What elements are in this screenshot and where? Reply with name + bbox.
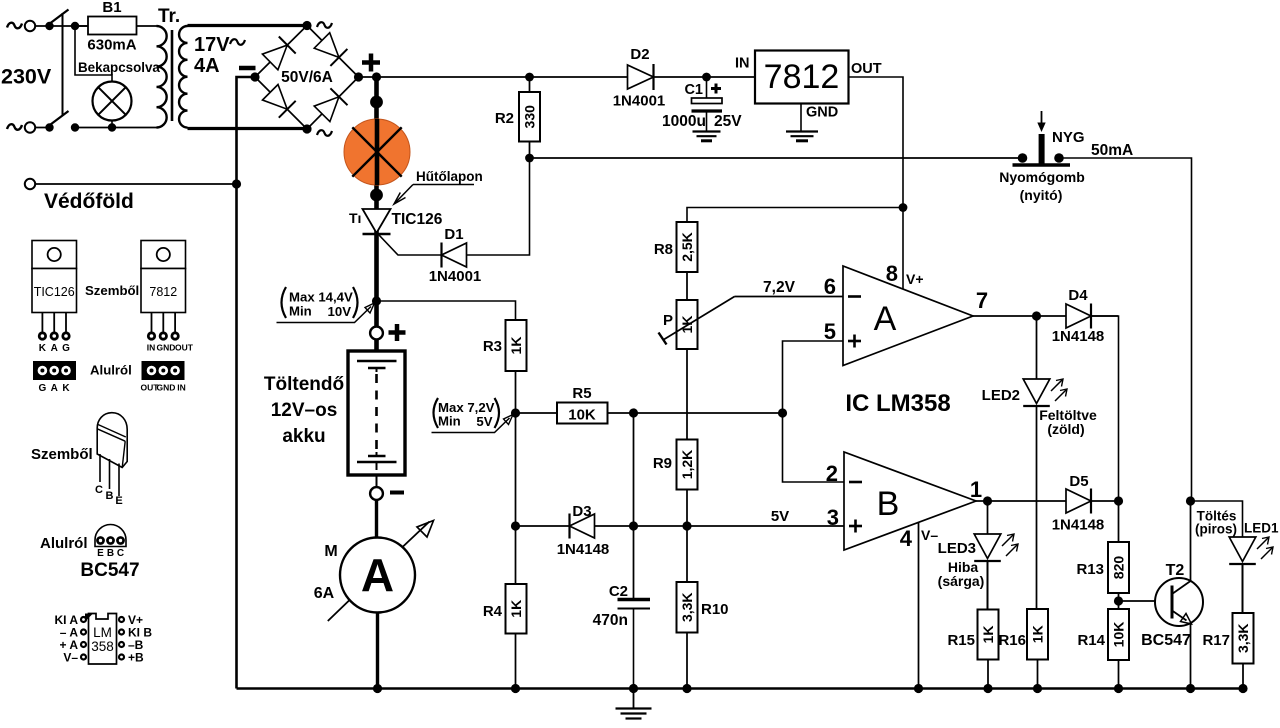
svg-text:230V: 230V	[1, 65, 52, 89]
diode D5 1N4148	[1066, 489, 1091, 513]
fuse B1	[88, 17, 137, 35]
wire ammeter to bus	[376, 613, 379, 689]
resistor R9 1,2K	[677, 440, 698, 490]
switch mechanical link	[62, 13, 64, 116]
7812 bottom view	[142, 361, 185, 380]
svg-text:8: 8	[886, 261, 898, 286]
svg-text:1: 1	[970, 477, 982, 502]
pushbutton NYG plunger	[1039, 134, 1045, 164]
junction D4-D5-R13	[1114, 496, 1123, 505]
svg-text:7812: 7812	[149, 285, 177, 299]
wire T2 emitter to bus	[1190, 623, 1192, 689]
svg-text:TIC126: TIC126	[34, 285, 75, 299]
svg-text:1K: 1K	[508, 600, 524, 618]
wire measure row to opamp inputs	[634, 412, 783, 414]
svg-text:5V: 5V	[771, 508, 789, 525]
label minus (battery)	[390, 491, 404, 495]
wire to pin5	[783, 341, 844, 413]
svg-text:OUT: OUT	[175, 343, 194, 353]
TIC126 bottom view	[33, 361, 76, 380]
label plus (bridge)	[362, 60, 380, 65]
wire R2 top	[529, 77, 531, 92]
svg-text:IC LM358: IC LM358	[845, 390, 950, 417]
capacitor C1 1000u 25V	[706, 77, 708, 98]
svg-text:10K: 10K	[568, 407, 596, 424]
diode D3 1N4148	[570, 514, 595, 538]
svg-text:10V: 10V	[328, 304, 352, 319]
svg-text:1N4148: 1N4148	[1052, 517, 1105, 534]
svg-text:5V: 5V	[476, 414, 492, 429]
wire bridge plus to D2 row	[359, 76, 629, 78]
diode D1 1N4001	[442, 243, 467, 267]
ground bus wire (bottom)	[237, 687, 1244, 690]
resistor R13 820	[1108, 542, 1129, 593]
junction lamp-bottom	[108, 123, 116, 131]
svg-text:IN: IN	[147, 343, 156, 353]
svg-text:akku: akku	[282, 426, 325, 447]
svg-text:10K: 10K	[1111, 622, 1127, 648]
junction R14-bus	[1114, 684, 1123, 693]
switch S1b blade	[49, 111, 69, 126]
junction blob above heatsink disc	[370, 96, 383, 109]
svg-text:D3: D3	[572, 503, 591, 520]
resistor R14 10K	[1108, 609, 1129, 660]
svg-text:D1: D1	[444, 226, 463, 243]
svg-text:2: 2	[826, 461, 838, 486]
svg-text:Alulról: Alulról	[40, 535, 88, 552]
junction C2-D3	[629, 521, 638, 530]
wire D3 to C2 column	[595, 525, 634, 527]
svg-text:BC547: BC547	[80, 560, 139, 581]
svg-text:Max 14,4V: Max 14,4V	[289, 290, 353, 305]
resistor R3 1K	[506, 320, 527, 371]
svg-text:Hűtőlapon: Hűtőlapon	[416, 169, 483, 184]
svg-text:E: E	[97, 548, 104, 559]
svg-text:1N4001: 1N4001	[429, 268, 482, 285]
junction blob below heatsink disc	[370, 189, 383, 202]
switch S1b contact dots	[45, 123, 53, 131]
ground (main bus)	[633, 689, 635, 709]
ammeter arrow	[328, 600, 349, 621]
wire mains top line to fuse	[36, 25, 89, 27]
svg-text:A: A	[51, 383, 58, 394]
resistor R17 3,3K	[1233, 613, 1254, 664]
svg-text:50mA: 50mA	[1091, 142, 1133, 159]
svg-text:A: A	[874, 300, 897, 338]
resistor R4 1K	[506, 584, 527, 634]
junction bridge plus	[354, 72, 363, 81]
junction R2 bottom / D1 node	[525, 154, 534, 163]
svg-text:3,3K: 3,3K	[1235, 623, 1251, 653]
diode D4 1N4148	[1066, 304, 1091, 328]
svg-text:R13: R13	[1076, 561, 1104, 578]
svg-text:12V–os: 12V–os	[271, 400, 338, 421]
svg-text:B: B	[106, 490, 114, 502]
TIC126 package front view	[32, 241, 77, 269]
label plus (battery)	[389, 330, 406, 335]
wire to R4	[515, 526, 517, 584]
wire half-node to R5	[516, 412, 558, 414]
wire LED1 branch	[1191, 501, 1243, 537]
svg-text:330: 330	[522, 105, 538, 129]
svg-text:C1: C1	[684, 82, 703, 98]
wire R3 to measure node	[515, 371, 517, 413]
wire switch to lamp branch and fuse	[75, 25, 88, 27]
junction R13-R14-base	[1114, 596, 1123, 605]
resistor R5 10K	[557, 403, 608, 424]
wire node to R3	[377, 301, 516, 320]
pushbutton NYG bridge bar	[1013, 163, 1071, 167]
earth terminal Vedofold	[25, 179, 35, 189]
svg-text:Bekapcsolva: Bekapcsolva	[78, 60, 160, 75]
wire LED2 to R16	[1036, 406, 1038, 609]
svg-text:Tr.: Tr.	[158, 6, 180, 27]
svg-text:Min: Min	[438, 414, 461, 429]
wire LED3 anode	[987, 501, 989, 534]
svg-text:R8: R8	[654, 241, 673, 258]
svg-text:Min: Min	[289, 304, 312, 319]
svg-text:50V/6A: 50V/6A	[281, 69, 333, 86]
svg-text:BC547: BC547	[1141, 632, 1191, 649]
svg-text:C2: C2	[609, 583, 628, 600]
wire D1 to R2 bottom	[467, 158, 530, 255]
junction half-voltage node	[511, 408, 520, 417]
wire 7812 OUT to V+ rail	[849, 77, 904, 289]
wire T2 base	[1119, 600, 1173, 602]
svg-text:358: 358	[91, 639, 114, 654]
wire 7,2V reference to pin6	[735, 296, 844, 298]
svg-text:V–: V–	[921, 527, 938, 543]
junction opamp input branch	[778, 408, 787, 417]
wire D2 to 7812 IN	[654, 76, 756, 78]
svg-text:7,2V: 7,2V	[763, 279, 796, 296]
svg-text:Töltendő: Töltendő	[264, 374, 344, 395]
wire 5V node to R10	[686, 526, 688, 582]
resistor R10 3,3K	[677, 582, 698, 633]
label minus (bridge)	[239, 66, 256, 71]
svg-text:R2: R2	[495, 110, 514, 127]
svg-text:4: 4	[900, 526, 913, 551]
svg-text:M: M	[324, 543, 337, 560]
junction R2 top	[525, 73, 534, 82]
wire half-node down	[515, 413, 517, 526]
wire LED3 to R15	[987, 561, 989, 610]
wire secondary bottom to bridge (thick)	[188, 127, 308, 130]
wire R13 to R14	[1118, 593, 1120, 609]
lamp (power-on indicator)	[93, 82, 132, 121]
wire R10 to bus	[686, 633, 688, 689]
junction C2-bus	[629, 684, 638, 693]
svg-text:(zöld): (zöld)	[1047, 421, 1084, 437]
wire 5V row	[634, 525, 845, 527]
plus sign pin3	[849, 525, 862, 528]
svg-text:C: C	[117, 548, 124, 559]
junction R10-bus	[682, 684, 691, 693]
wire P to R9	[686, 349, 688, 440]
AC symbol bridge top	[317, 22, 332, 28]
junction R16-bus	[1033, 684, 1042, 693]
IC LM358 DIP package	[89, 614, 117, 665]
junction output A / LED2	[1032, 311, 1041, 320]
op-amp U1B	[844, 452, 976, 550]
wire R2 bottom	[529, 142, 531, 159]
svg-text:R14: R14	[1077, 632, 1105, 649]
potentiometer P 1K	[677, 300, 698, 349]
svg-text:K: K	[62, 383, 70, 394]
svg-text:G: G	[39, 383, 47, 394]
ground (7812)	[786, 130, 818, 132]
svg-text:A: A	[361, 549, 394, 601]
svg-text:7812: 7812	[764, 58, 840, 96]
svg-text:V–: V–	[63, 651, 78, 665]
svg-text:D2: D2	[630, 46, 649, 63]
svg-text:R4: R4	[483, 603, 503, 620]
pushbutton NYG actuate arrow	[1041, 111, 1043, 127]
junction R15-bus	[983, 684, 992, 693]
LM358 pins	[80, 616, 87, 623]
svg-text:25V: 25V	[714, 113, 742, 130]
junction R4/D3 node	[511, 521, 520, 530]
wire switch bottom to transformer	[75, 127, 157, 129]
mains terminal L (top)	[25, 21, 35, 31]
junction bridge AC top	[302, 21, 311, 30]
svg-text:LM: LM	[93, 625, 112, 640]
bridge diode (bottom-right edge)	[314, 97, 339, 122]
wire to pin2	[783, 413, 845, 482]
svg-text:6: 6	[824, 274, 836, 299]
svg-text:(nyitó): (nyitó)	[1020, 187, 1063, 203]
ammeter M 6A	[340, 538, 415, 613]
wire pin4 to bus	[918, 522, 920, 689]
svg-text:B: B	[877, 485, 900, 523]
LED1 (red)	[1229, 537, 1256, 562]
svg-text:Nyomógomb: Nyomógomb	[999, 169, 1085, 185]
label plus (C1)	[711, 87, 721, 90]
svg-text:3: 3	[827, 505, 839, 530]
diode D2 1N4001	[628, 65, 654, 89]
wire battery to ammeter	[375, 500, 378, 538]
svg-text:B: B	[107, 548, 114, 559]
battery plates	[357, 360, 397, 362]
pushbutton NYG contacts	[1018, 153, 1028, 163]
regulator U2 7812 box	[755, 51, 849, 104]
junction earth-minus rail	[232, 179, 241, 188]
transformer Tr core	[171, 30, 174, 121]
svg-text:17V: 17V	[194, 34, 230, 56]
svg-text:470n: 470n	[593, 612, 628, 629]
wire R9 to 5V node	[686, 490, 688, 527]
wire lamp branch	[75, 26, 112, 82]
wire R4 to bus	[515, 634, 517, 689]
ground (C1)	[693, 130, 721, 132]
svg-text:6A: 6A	[314, 585, 335, 602]
transformer Tr secondary winding	[179, 26, 187, 128]
junction V+ / R8 feed	[899, 203, 908, 212]
capacitor C2 470n	[618, 598, 651, 601]
svg-text:GND: GND	[806, 105, 838, 121]
wire D3 row left	[516, 525, 570, 527]
svg-text:R15: R15	[947, 632, 975, 649]
thyristor T1 TIC126	[363, 209, 391, 233]
wire opamp A output	[973, 315, 1118, 317]
AC symbol bridge bottom	[317, 130, 332, 136]
wire D4 to D5 column	[1092, 316, 1119, 501]
svg-text:1K: 1K	[980, 626, 996, 644]
svg-text:1000u: 1000u	[662, 113, 706, 130]
svg-text:A: A	[51, 343, 58, 354]
plus sign pin5	[848, 340, 861, 343]
mains terminal L (bottom)	[25, 122, 35, 132]
AC symbol bottom-left	[7, 124, 22, 130]
bridge rectifier 50V/6A frame	[307, 26, 359, 78]
junction pin4-bus	[914, 684, 923, 693]
svg-text:LED2: LED2	[982, 387, 1020, 404]
svg-text:K: K	[39, 343, 47, 354]
svg-text:Védőföld: Védőföld	[44, 190, 134, 213]
svg-text:LED1: LED1	[1244, 521, 1279, 536]
svg-text:Alulról: Alulról	[90, 363, 132, 378]
svg-text:R17: R17	[1202, 632, 1230, 649]
bridge diode (left-top edge)	[262, 45, 287, 70]
svg-text:NYG: NYG	[1052, 129, 1085, 146]
junction R5-C2 node	[629, 408, 638, 417]
transistor T2 BC547	[1155, 578, 1203, 626]
svg-text:GND: GND	[157, 343, 176, 353]
battery cell box	[374, 340, 379, 352]
battery plus terminal	[370, 327, 383, 340]
wire R17 to bus	[1242, 664, 1244, 689]
svg-text:1,2K: 1,2K	[679, 450, 695, 480]
svg-text:5: 5	[824, 319, 836, 344]
battery minus terminal	[376, 475, 378, 487]
wire main charge rail (thick)	[374, 77, 379, 333]
wire R5 to C2 node	[608, 412, 634, 414]
wire fuse to transformer	[137, 25, 158, 27]
svg-text:R10: R10	[701, 601, 729, 618]
svg-text:E: E	[115, 495, 122, 507]
svg-text:1N4148: 1N4148	[557, 541, 610, 558]
wire secondary top to bridge (thick)	[188, 24, 308, 27]
svg-text:1N4001: 1N4001	[613, 93, 666, 110]
wire earth to minus rail	[36, 183, 237, 185]
junction bridge minus	[250, 72, 259, 81]
svg-text:B1: B1	[102, 0, 121, 16]
svg-text:R9: R9	[653, 455, 672, 472]
junction output B / LED3	[983, 496, 992, 505]
svg-text:820: 820	[1111, 556, 1127, 580]
svg-text:P: P	[663, 312, 673, 329]
svg-text:Szemből: Szemből	[85, 283, 139, 298]
svg-text:(piros): (piros)	[1195, 522, 1237, 537]
svg-text:G: G	[62, 343, 70, 354]
junction plus rail	[372, 72, 381, 81]
wire opamp B output	[976, 500, 1066, 502]
svg-text:Tı: Tı	[349, 210, 361, 226]
junction R9-R10 5V node	[682, 521, 691, 530]
svg-text:1N4148: 1N4148	[1052, 328, 1105, 345]
svg-text:T2: T2	[1166, 562, 1185, 579]
wire R13 top	[1118, 501, 1120, 542]
resistor R16 1K	[1027, 609, 1048, 660]
wire R8 feed	[687, 208, 903, 223]
junction emitter-bus	[1186, 684, 1195, 693]
svg-text:630mA: 630mA	[87, 37, 136, 54]
svg-text:1K: 1K	[508, 337, 524, 355]
wire R8 to P	[686, 272, 688, 300]
wire R15 to bus	[987, 660, 989, 689]
junction ammeter-bus	[373, 684, 382, 693]
svg-text:3,3K: 3,3K	[679, 592, 695, 622]
svg-text:1K: 1K	[1030, 625, 1046, 643]
LED3 (yellow)	[974, 534, 1001, 559]
wire T2 collector up	[1190, 501, 1192, 581]
svg-text:Szemből: Szemből	[31, 446, 93, 463]
svg-text:OUT: OUT	[851, 61, 882, 77]
minus sign pin2	[849, 481, 862, 484]
wire T1 gate	[379, 235, 441, 255]
resistor R8 2,5K	[677, 222, 698, 272]
junction R4-bus	[511, 684, 520, 693]
svg-text:R5: R5	[572, 385, 591, 402]
svg-text:LED3: LED3	[938, 540, 976, 557]
wire NYG row	[530, 157, 1023, 159]
svg-text:D5: D5	[1069, 473, 1088, 490]
svg-text:GND: GND	[157, 383, 176, 393]
junction C1 top	[702, 73, 711, 82]
switch S1a contact dots	[45, 22, 53, 30]
svg-text:+B: +B	[128, 651, 144, 665]
junction collector-LED1 branch	[1186, 496, 1195, 505]
wire LED2 anode	[1036, 316, 1038, 379]
svg-text:TIC126: TIC126	[392, 211, 443, 228]
resistor R2 330	[519, 92, 540, 142]
wire D5 to R13 column	[1092, 500, 1119, 502]
wire LED1 to R17	[1242, 564, 1244, 613]
svg-text:4A: 4A	[194, 55, 220, 77]
BC547 bottom view	[95, 524, 126, 546]
wire NYG to right rail	[1059, 158, 1192, 501]
svg-text:V+: V+	[906, 271, 924, 287]
wire 7812 GND pin	[800, 104, 802, 132]
wire R16 to bus	[1037, 660, 1039, 689]
transformer Tr primary winding	[157, 26, 167, 128]
svg-text:R3: R3	[483, 338, 502, 355]
wire R14 to bus	[1118, 660, 1120, 689]
junction bridge AC bottom	[302, 124, 311, 133]
bridge diode (top-right edge)	[314, 33, 339, 58]
BC547 package front view	[97, 413, 127, 468]
LED2 (green)	[1023, 379, 1050, 404]
wire C2 column top	[633, 413, 635, 598]
bridge diode (left-bottom edge)	[263, 85, 288, 110]
regulator 7812 package front view	[141, 241, 186, 269]
wire bridge minus down left rail	[237, 77, 256, 689]
AC symbol top-left	[7, 23, 22, 29]
op-amp U1A	[843, 266, 973, 366]
svg-text:D4: D4	[1068, 287, 1088, 304]
svg-text:IN: IN	[177, 383, 186, 393]
svg-text:(sárga): (sárga)	[938, 573, 985, 589]
svg-text:IN: IN	[735, 56, 750, 72]
minus sign pin6	[848, 295, 861, 298]
svg-text:C: C	[95, 484, 103, 496]
svg-text:2,5K: 2,5K	[679, 232, 695, 262]
resistor R15 1K	[978, 610, 999, 660]
switch S1a blade	[49, 10, 69, 25]
junction R17-bus	[1238, 684, 1247, 693]
svg-text:R16: R16	[998, 632, 1026, 649]
heatsink disc (orange)	[344, 119, 410, 185]
